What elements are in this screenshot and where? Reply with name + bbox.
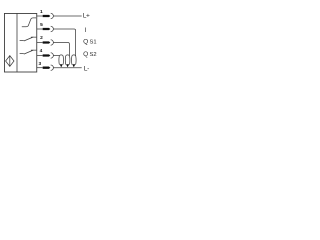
wire L- bottom rail [54, 67, 82, 69]
pin 2 stub [37, 42, 43, 44]
switching output step symbol S1 [20, 37, 37, 41]
pin 4 socket chevron [51, 53, 54, 58]
pin 1 stub [37, 15, 43, 17]
svg-text:3: 3 [38, 61, 41, 67]
wire L+ [54, 15, 82, 17]
analog output ramp symbol [22, 18, 36, 27]
load 1 arrow [60, 64, 63, 67]
proximity sensor diamond [6, 56, 14, 67]
load 2 loop [65, 55, 70, 65]
sensor internal divider [16, 14, 18, 72]
svg-text:1: 1 [40, 9, 43, 15]
wire Q S1 with corner down [54, 43, 70, 57]
pin 2 male pin [43, 41, 51, 43]
svg-text:L-: L- [84, 66, 89, 73]
pin 5 male pin [43, 28, 51, 30]
pin 5 stub [37, 28, 43, 30]
wire I with corner down [54, 29, 76, 56]
svg-text:2: 2 [40, 35, 43, 41]
wire Q S2 to load 1 [54, 55, 60, 57]
load 3 arrow [72, 64, 75, 67]
switching output step symbol S2 [20, 50, 37, 54]
svg-text:Q: Q [83, 38, 88, 45]
pin 3 male pin [43, 67, 51, 69]
svg-text:I: I [84, 27, 86, 34]
pin 4 stub [37, 55, 43, 57]
load 2 arrow [66, 64, 69, 67]
pin 3 socket chevron [51, 65, 54, 70]
svg-text:L+: L+ [83, 13, 90, 20]
sensor body outline [4, 13, 36, 72]
load 1 loop [59, 55, 64, 65]
svg-text:S2: S2 [90, 52, 97, 58]
pin 5 socket chevron [51, 26, 54, 31]
pin 2 socket chevron [51, 40, 54, 45]
svg-text:Q: Q [83, 51, 88, 58]
pin 1 male pin [43, 15, 51, 17]
svg-text:S1: S1 [90, 39, 97, 45]
svg-text:4: 4 [40, 48, 43, 54]
pin 3 stub [37, 67, 43, 69]
load 3 loop [72, 55, 77, 65]
svg-text:5: 5 [40, 22, 43, 28]
pin 4 male pin [43, 54, 51, 56]
pin 1 socket chevron [51, 13, 54, 18]
